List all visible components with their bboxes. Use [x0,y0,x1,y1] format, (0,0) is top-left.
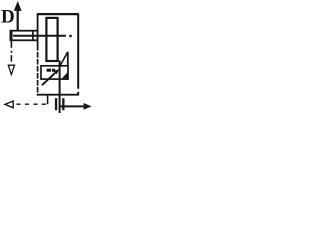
spool chamber (tall rectangle) [46,18,57,61]
pilot dot of dash-dot line to right edge [69,35,71,37]
throttle bar left [55,98,57,110]
arrow to tank (filled up arrowhead) [14,1,22,11]
poppet triangle T2 (filled) [62,72,68,79]
enclosure right edge [77,14,79,89]
enclosure top edge [37,13,79,15]
wire: horizontal line through box1 into spool chamber [13,35,66,37]
valve box2 (relief poppet box) [41,66,68,79]
pilot tap line bottom [47,95,49,104]
box1 internal divider [32,31,34,41]
svg-text:D: D [1,7,15,28]
enclosure left edge [37,14,39,45]
wire: tank line up from box1 [17,9,19,31]
poppet triangle T1 (outline) [60,52,67,66]
box1 thick left edge [10,32,13,40]
output line [60,105,84,107]
seat marks in box2 [47,69,51,72]
adjustment arrow shaft [42,73,55,85]
main vertical flow line [59,60,61,113]
hollow left arrowhead [5,101,13,108]
valve box1 (pilot spool box, top-left) [10,31,37,41]
throttle bar right [62,98,64,110]
adjustment arrow filled head [54,69,60,74]
hollow down arrowhead [8,65,14,74]
output filled right arrowhead [84,103,92,110]
pilot dashed line to left [16,103,46,105]
pilot dash-dot line down from box1 [10,41,12,48]
enclosure bottom edge [37,94,79,96]
